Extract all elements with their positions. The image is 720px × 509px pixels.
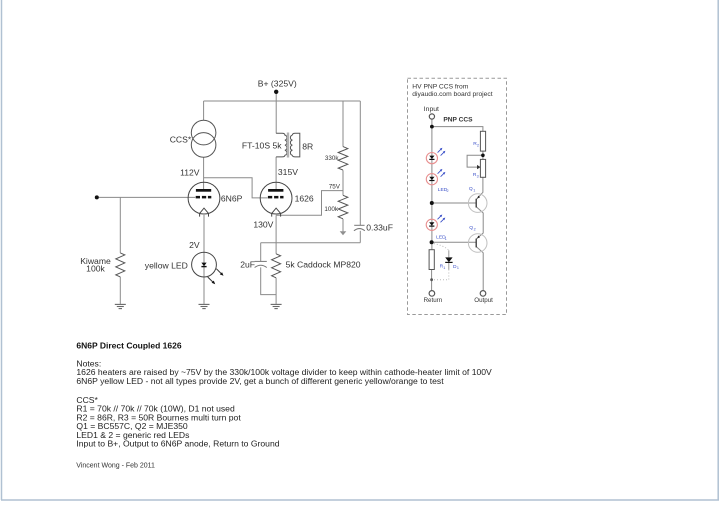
svg-text:PNP CCS: PNP CCS (443, 116, 473, 123)
svg-text:6N6P: 6N6P (221, 193, 243, 203)
svg-text:2: 2 (477, 143, 479, 147)
svg-text:diyaudio.com board project: diyaudio.com board project (412, 91, 492, 98)
svg-text:Vincent Wong - Feb 2011: Vincent Wong - Feb 2011 (76, 462, 155, 469)
svg-text:Input to B+, Output to 6N6P an: Input to B+, Output to 6N6P anode, Retur… (76, 439, 279, 449)
svg-text:B+ (325V): B+ (325V) (258, 79, 297, 89)
svg-text:1: 1 (457, 266, 459, 270)
svg-text:315V: 315V (278, 167, 298, 177)
svg-text:6N6P yellow LED - not all type: 6N6P yellow LED - not all types provide … (76, 376, 444, 386)
svg-text:330k: 330k (325, 155, 340, 162)
svg-text:5k Caddock MP820: 5k Caddock MP820 (286, 259, 361, 269)
svg-text:HV PNP CCS from: HV PNP CCS from (412, 83, 468, 90)
svg-text:100k: 100k (324, 206, 339, 213)
svg-text:2uF: 2uF (240, 259, 255, 269)
svg-text:0.33uF: 0.33uF (366, 223, 393, 233)
svg-text:1: 1 (445, 237, 447, 241)
svg-text:75V: 75V (329, 183, 341, 190)
svg-text:Input: Input (424, 106, 439, 113)
svg-text:1626: 1626 (295, 193, 314, 203)
svg-text:2V: 2V (189, 240, 200, 250)
svg-text:1: 1 (443, 266, 445, 270)
svg-text:6N6P Direct Coupled 1626: 6N6P Direct Coupled 1626 (76, 340, 181, 350)
svg-text:1: 1 (473, 189, 475, 193)
svg-text:130V: 130V (253, 220, 273, 230)
svg-text:2: 2 (474, 228, 476, 232)
svg-text:100k: 100k (86, 264, 105, 274)
svg-text:112V: 112V (180, 167, 200, 177)
svg-text:CCS*: CCS* (170, 135, 192, 145)
svg-text:Output: Output (474, 297, 493, 304)
svg-text:8R: 8R (302, 141, 313, 151)
svg-text:Return: Return (424, 297, 443, 304)
svg-text:FT-10S 5k: FT-10S 5k (242, 141, 282, 151)
svg-text:2: 2 (447, 189, 449, 193)
svg-text:yellow LED: yellow LED (145, 261, 188, 271)
svg-text:3: 3 (477, 175, 479, 179)
